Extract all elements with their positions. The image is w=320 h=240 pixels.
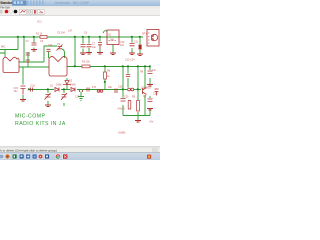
svg-text:C19: C19 [124, 96, 129, 99]
svg-text:1N60: 1N60 [56, 84, 62, 87]
svg-text:VR1: VR1 [97, 91, 102, 94]
svg-text:Schematic - MIC-COMP: Schematic - MIC-COMP [55, 1, 89, 5]
svg-text:MIC-COMP: MIC-COMP [15, 114, 45, 120]
svg-text:10u: 10u [152, 69, 157, 72]
svg-text:386: 386 [110, 39, 115, 42]
svg-text:C13 C14: C13 C14 [125, 59, 135, 62]
svg-text:+9V: +9V [149, 121, 154, 124]
svg-text:Standard: Standard [0, 1, 14, 5]
svg-text:1uF: 1uF [68, 30, 73, 33]
svg-text:C20: C20 [153, 93, 158, 96]
svg-text:C17: C17 [75, 96, 80, 99]
svg-text:C11: C11 [134, 41, 139, 44]
svg-text:2SC1815: 2SC1815 [141, 87, 152, 90]
svg-text:1N60: 1N60 [70, 84, 76, 87]
svg-text:C18: C18 [118, 86, 123, 89]
svg-text:104: 104 [120, 44, 125, 47]
svg-text:VC1: VC1 [37, 21, 42, 24]
svg-text:LM386: LM386 [118, 132, 126, 135]
svg-text:470: 470 [92, 86, 97, 89]
svg-text:10u: 10u [14, 90, 19, 93]
svg-text:+9V(R): +9V(R) [117, 108, 125, 111]
svg-text:SP 8: SP 8 [142, 33, 148, 36]
svg-text:k to delete (Ctrl+right-click: k to delete (Ctrl+right-click to delete … [0, 148, 57, 152]
svg-text:R5 10k: R5 10k [82, 61, 90, 64]
svg-text:C5 104: C5 104 [57, 32, 65, 35]
svg-text:C16: C16 [31, 85, 36, 88]
svg-text:R1 1k: R1 1k [36, 33, 43, 36]
svg-text:104: 104 [48, 44, 53, 47]
svg-text:RADIO KITS IN JA: RADIO KITS IN JA [15, 121, 66, 127]
svg-text:MIC: MIC [1, 46, 6, 49]
svg-text:10u: 10u [92, 46, 97, 49]
